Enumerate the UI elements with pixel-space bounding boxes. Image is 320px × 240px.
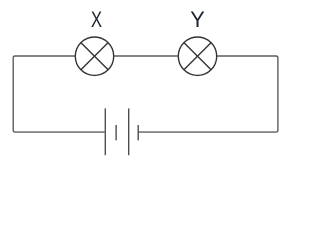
svg-text:X: X bbox=[91, 7, 103, 32]
svg-text:Y: Y bbox=[190, 7, 205, 32]
battery cell 1 short plate bbox=[115, 125, 117, 140]
battery cell 2 long plate bbox=[128, 108, 130, 155]
lamp Y (circle with cross) bbox=[178, 37, 216, 75]
lamp X (circle with cross) bbox=[75, 37, 113, 75]
wire: lamp Y right + right vertical + bottom-right to battery bbox=[138, 56, 278, 132]
battery cell 2 short plate bbox=[137, 125, 139, 140]
wire: top-left segment + left vertical + bottom-left to battery bbox=[13, 56, 104, 132]
battery cell 1 long plate bbox=[104, 108, 106, 155]
wire: between lamp X and lamp Y bbox=[114, 55, 179, 57]
